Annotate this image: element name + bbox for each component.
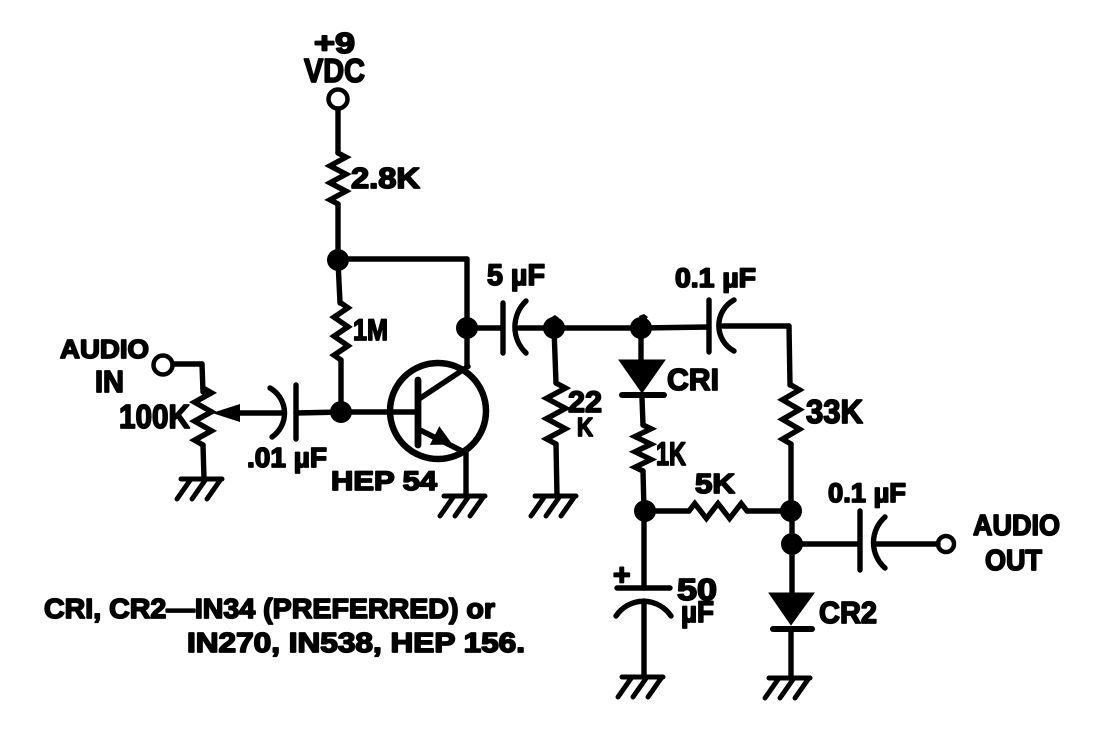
svg-text:IN: IN [95,364,124,399]
svg-text:5 µF: 5 µF [487,259,545,292]
svg-text:1M: 1M [353,314,388,347]
svg-text:CRI: CRI [667,362,719,397]
svg-text:2.8K: 2.8K [351,163,420,195]
svg-text:VDC: VDC [304,52,365,89]
svg-text:K: K [577,412,593,442]
svg-text:AUDIO: AUDIO [973,510,1060,542]
svg-text:µF: µF [681,596,714,629]
svg-text:IN270, IN538, HEP 156.: IN270, IN538, HEP 156. [187,627,525,658]
svg-text:OUT: OUT [985,545,1042,577]
svg-text:0.1 µF: 0.1 µF [828,478,906,508]
svg-text:CRI, CR2—IN34 (PREFERRED) or: CRI, CR2—IN34 (PREFERRED) or [44,593,495,624]
svg-text:1K: 1K [656,436,686,472]
svg-text:33K: 33K [806,393,863,430]
svg-text:CR2: CR2 [819,595,877,630]
svg-text:5K: 5K [695,468,735,499]
svg-text:0.1 µF: 0.1 µF [675,263,756,293]
svg-text:100K: 100K [119,398,190,435]
svg-text:AUDIO: AUDIO [60,334,149,364]
svg-text:.01 µF: .01 µF [247,442,327,473]
svg-text:HEP 54: HEP 54 [331,466,437,496]
